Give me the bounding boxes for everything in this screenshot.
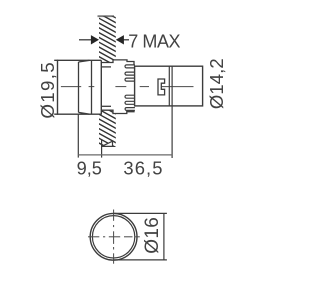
svg-text:Ø16: Ø16: [142, 217, 163, 254]
snap-in ribs upper: [125, 65, 135, 81]
extension line at body feature: [171, 106, 173, 158]
body outline: [135, 66, 203, 106]
svg-text:Ø14,2: Ø14,2: [206, 58, 227, 109]
front view inner circle: [92, 216, 134, 258]
panel hatch lower: [92, 0, 122, 165]
dimension 7 MAX right arrow: [116, 35, 129, 44]
svg-text:36,5: 36,5: [123, 158, 163, 179]
snap-in ribs lower: [125, 95, 135, 110]
bottom dimension line: [78, 154, 172, 156]
svg-text:Ø19,5: Ø19,5: [37, 61, 58, 119]
extension line at panel front: [101, 140, 103, 158]
body separation double line: [169, 66, 172, 106]
sleeve outline behind panel (top): [101, 60, 134, 67]
flag arrow at panel: [102, 141, 113, 146]
svg-text:7 MAX: 7 MAX: [128, 31, 180, 51]
svg-text:9,5: 9,5: [77, 159, 102, 179]
extension line at bezel rear: [77, 114, 79, 157]
front view vertical centerline: [113, 210, 115, 264]
dimension 7 MAX left arrow: [79, 35, 99, 44]
bezel outline: [54, 60, 102, 115]
diameter 16 extension bottom: [114, 259, 167, 261]
centerline of side view: [61, 86, 194, 88]
panel top cap: [98, 15, 115, 17]
diameter 16 dimension line: [163, 213, 165, 260]
diameter 16 extension top: [114, 212, 167, 214]
front view horizontal centerline: [88, 236, 140, 238]
lamp clip detail: [158, 79, 165, 95]
panel hatch upper: [92, 0, 122, 165]
bezel lens inner line: [79, 60, 92, 114]
front view outer circle: [90, 213, 137, 260]
sleeve outline behind panel (bottom): [101, 106, 134, 113]
